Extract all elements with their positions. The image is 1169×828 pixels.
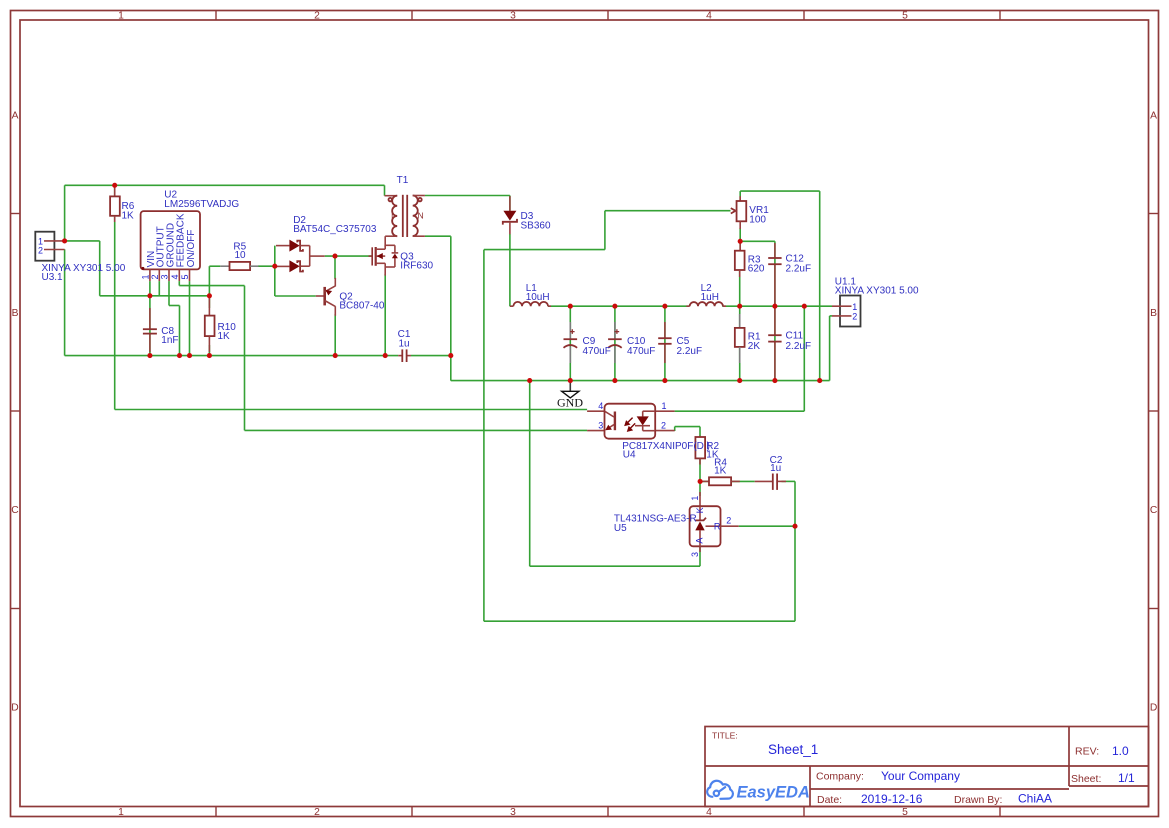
svg-text:U3.1: U3.1 — [42, 272, 64, 283]
svg-text:1u: 1u — [398, 338, 409, 349]
svg-text:EasyEDA: EasyEDA — [737, 784, 810, 802]
svg-text:1: 1 — [690, 496, 700, 501]
svg-text:2: 2 — [661, 420, 666, 430]
svg-text:R: R — [714, 521, 721, 531]
svg-text:D: D — [11, 703, 18, 714]
svg-text:100: 100 — [749, 214, 766, 225]
svg-text:3: 3 — [690, 552, 700, 557]
svg-text:TITLE:: TITLE: — [712, 730, 738, 740]
svg-text:3: 3 — [598, 420, 603, 430]
svg-text:2: 2 — [150, 274, 160, 279]
svg-text:N: N — [418, 211, 424, 221]
svg-text:470uF: 470uF — [627, 346, 655, 357]
svg-text:2.2uF: 2.2uF — [786, 264, 812, 275]
svg-text:A: A — [695, 538, 705, 544]
svg-text:C: C — [11, 505, 19, 516]
svg-text:U5: U5 — [614, 523, 627, 534]
svg-text:T1: T1 — [397, 175, 409, 186]
svg-text:SB360: SB360 — [521, 220, 551, 231]
svg-text:3: 3 — [160, 274, 170, 279]
svg-text:1nF: 1nF — [161, 335, 178, 346]
svg-text:D: D — [1150, 703, 1157, 714]
svg-text:5: 5 — [902, 11, 908, 22]
svg-text:5: 5 — [180, 274, 190, 279]
svg-text:1: 1 — [118, 807, 124, 818]
svg-text:10: 10 — [234, 250, 246, 261]
svg-text:ChiAA: ChiAA — [1018, 792, 1052, 806]
svg-text:1K: 1K — [218, 331, 231, 342]
svg-text:K: K — [695, 507, 705, 513]
svg-text:2.2uF: 2.2uF — [786, 341, 812, 352]
svg-text:U4: U4 — [623, 450, 636, 461]
svg-text:2019-12-16: 2019-12-16 — [861, 792, 923, 806]
svg-text:LM2596TVADJG: LM2596TVADJG — [164, 199, 239, 210]
svg-text:GND: GND — [557, 396, 583, 410]
svg-text:4: 4 — [598, 401, 603, 411]
svg-text:10uH: 10uH — [526, 292, 550, 303]
svg-text:C: C — [1150, 505, 1158, 516]
svg-text:1: 1 — [662, 401, 667, 411]
svg-text:A: A — [1150, 111, 1157, 122]
svg-text:BAT54C_C375703: BAT54C_C375703 — [293, 224, 377, 235]
svg-text:1: 1 — [118, 11, 124, 22]
svg-text:ON/OFF: ON/OFF — [186, 230, 197, 268]
svg-text:XINYA XY301 5.00: XINYA XY301 5.00 — [835, 286, 919, 297]
svg-text:4: 4 — [706, 807, 712, 818]
svg-text:2K: 2K — [748, 341, 761, 352]
svg-text:1uH: 1uH — [701, 292, 719, 303]
svg-text:Sheet_1: Sheet_1 — [768, 742, 818, 757]
svg-text:1.0: 1.0 — [1112, 744, 1129, 758]
svg-text:1K: 1K — [122, 210, 135, 221]
svg-text:B: B — [1150, 308, 1157, 319]
svg-text:REV:: REV: — [1075, 746, 1099, 758]
svg-text:5: 5 — [902, 807, 908, 818]
svg-text:2: 2 — [852, 312, 857, 322]
svg-text:2.2uF: 2.2uF — [677, 346, 703, 357]
svg-text:1/1: 1/1 — [1118, 771, 1135, 785]
svg-text:Company:: Company: — [816, 771, 864, 783]
svg-text:1K: 1K — [714, 466, 727, 477]
svg-text:1u: 1u — [770, 463, 781, 474]
svg-text:2: 2 — [726, 515, 731, 525]
svg-text:1: 1 — [852, 302, 857, 312]
svg-text:IRF630: IRF630 — [400, 261, 433, 272]
svg-text:Date:: Date: — [817, 794, 842, 806]
svg-text:A: A — [12, 111, 19, 122]
svg-text:Sheet:: Sheet: — [1071, 773, 1101, 785]
svg-text:3: 3 — [510, 11, 516, 22]
svg-text:Your Company: Your Company — [881, 769, 960, 783]
svg-text:3: 3 — [510, 807, 516, 818]
svg-text:2: 2 — [38, 245, 43, 255]
svg-text:Drawn By:: Drawn By: — [954, 794, 1002, 806]
svg-text:BC807-40: BC807-40 — [339, 301, 384, 312]
svg-text:620: 620 — [748, 264, 765, 275]
svg-text:470uF: 470uF — [583, 346, 611, 357]
svg-text:2: 2 — [314, 807, 320, 818]
svg-text:I: I — [391, 211, 393, 221]
svg-text:4: 4 — [706, 11, 712, 22]
svg-text:B: B — [12, 308, 19, 319]
svg-text:4: 4 — [170, 274, 180, 279]
svg-text:2: 2 — [314, 11, 320, 22]
